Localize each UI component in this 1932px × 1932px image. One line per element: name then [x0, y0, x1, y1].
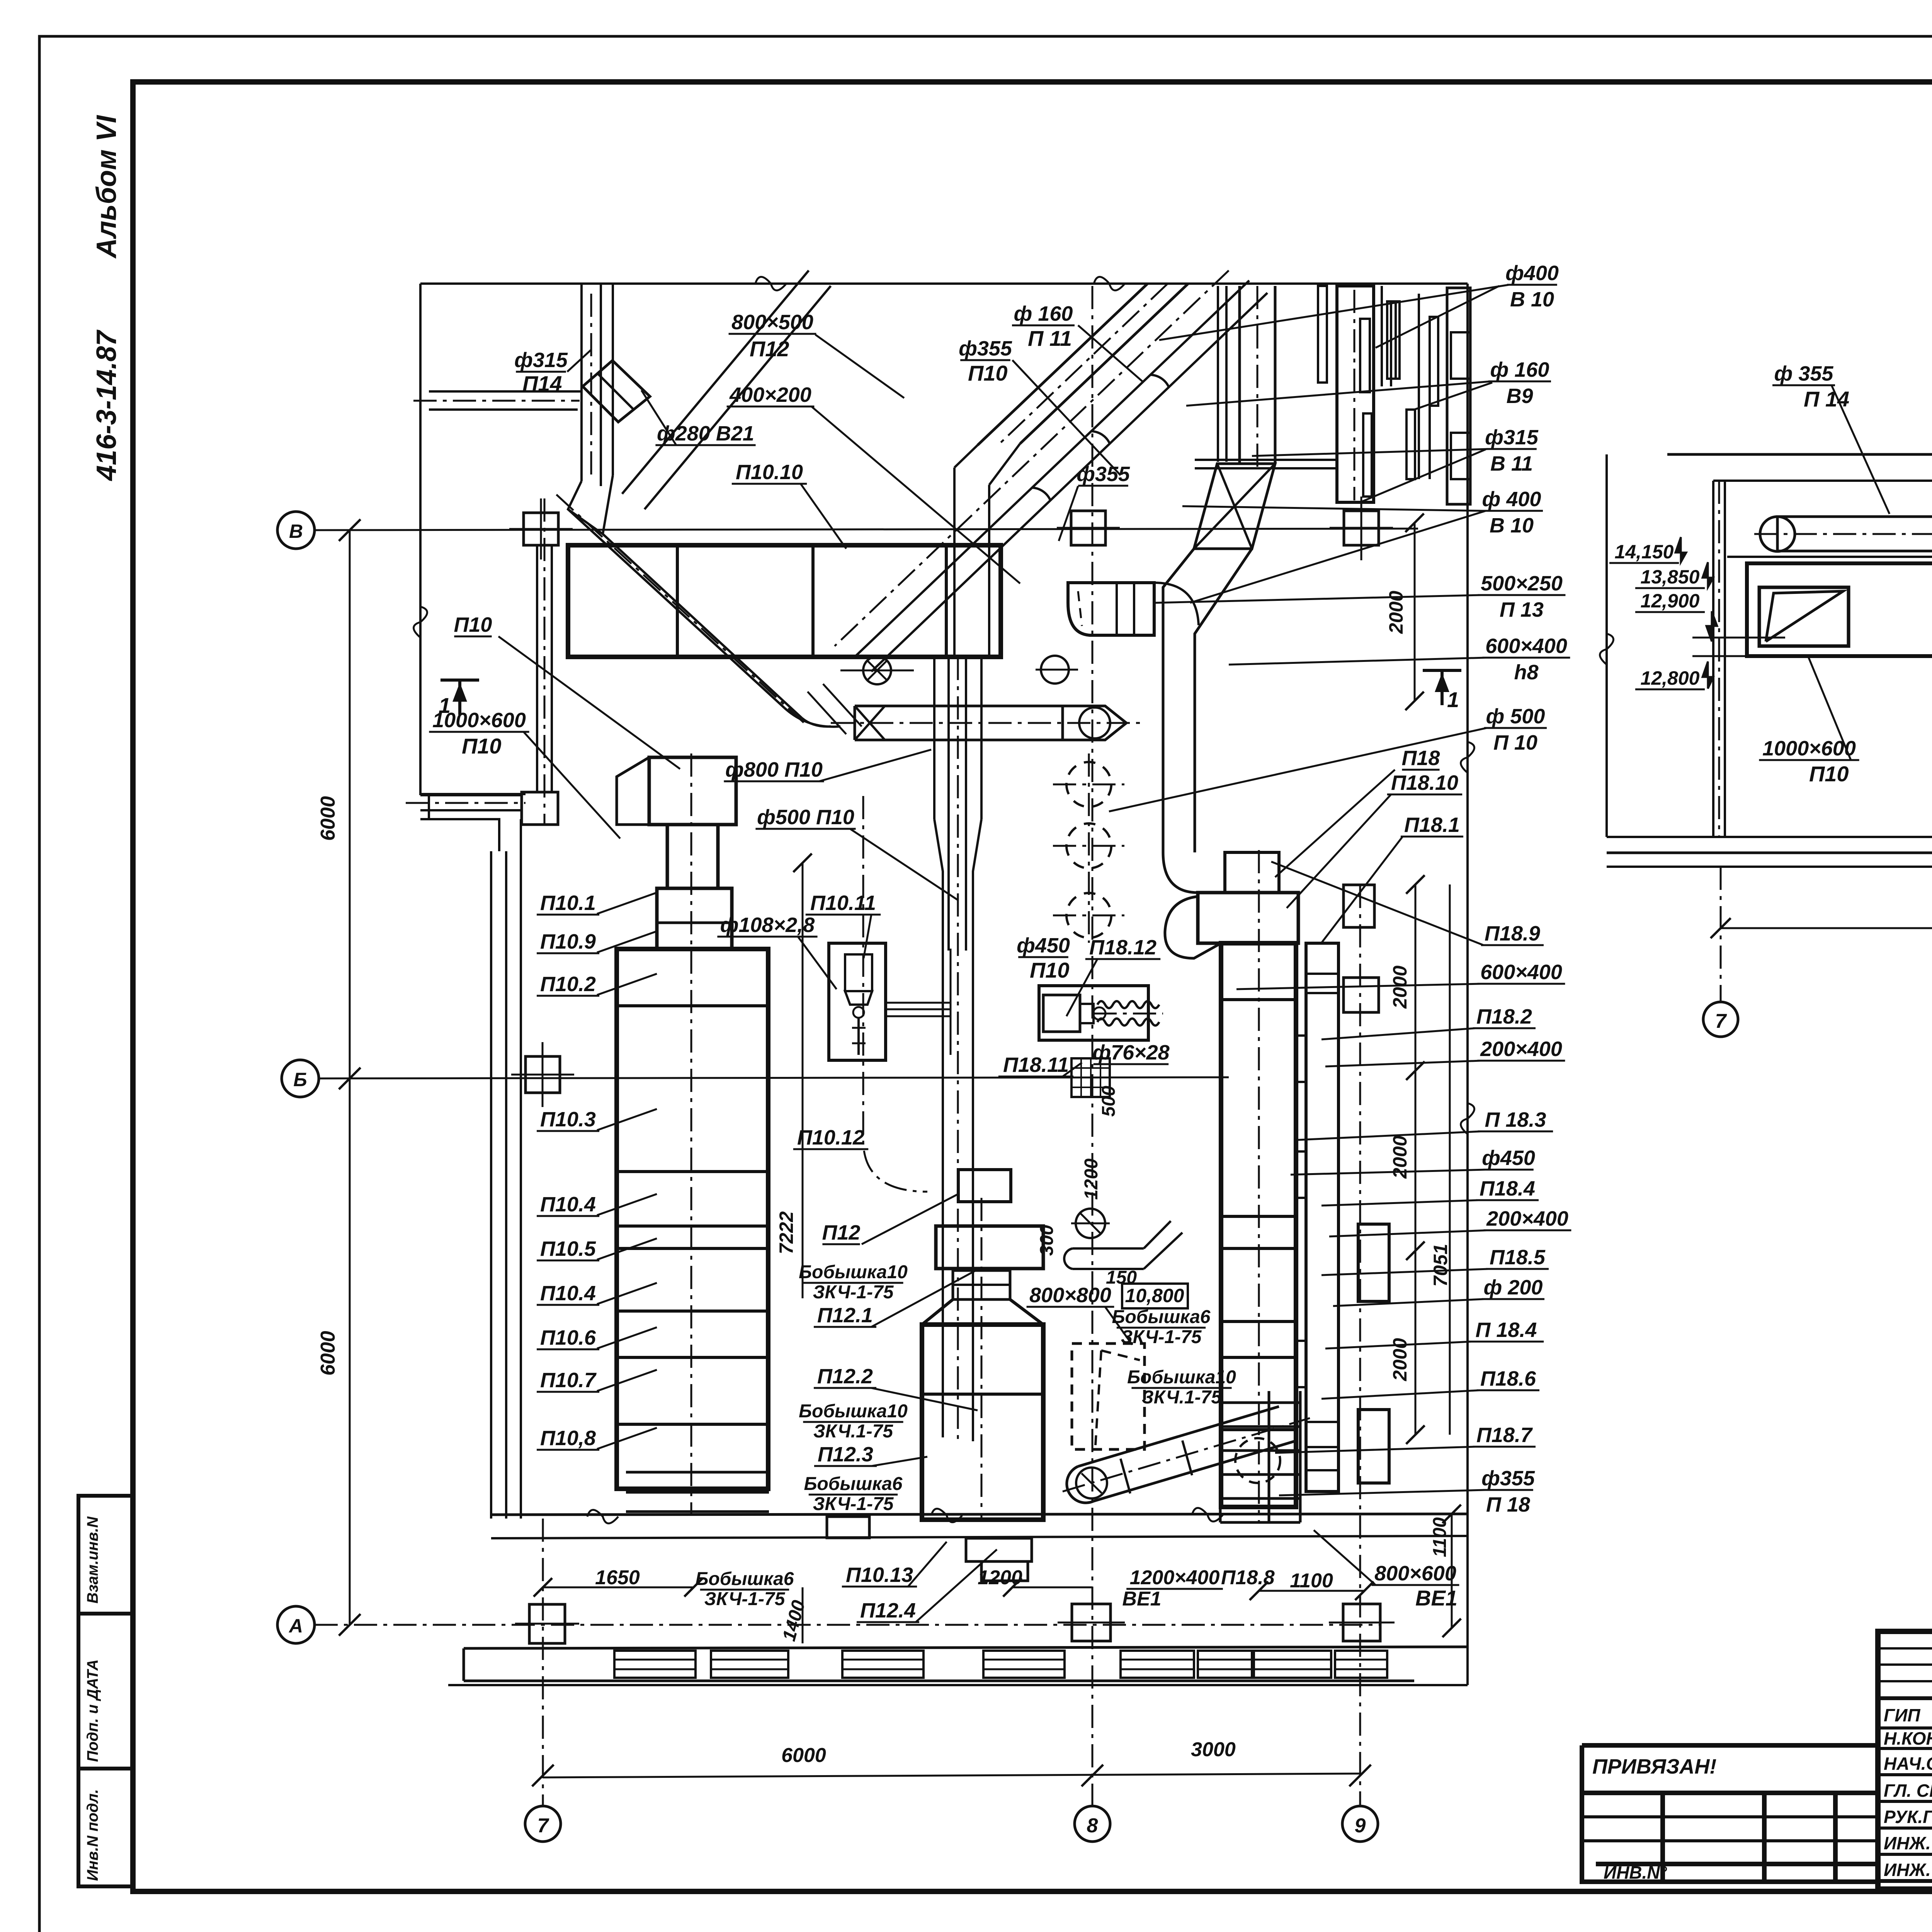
svg-text:300: 300 — [1037, 1225, 1057, 1256]
column at V/8g — [1071, 511, 1105, 545]
svg-text:ф 160: ф 160 — [1014, 302, 1073, 325]
svg-text:П10.6: П10.6 — [540, 1326, 596, 1349]
P10 fan box top — [649, 757, 736, 825]
axis line B — [319, 1077, 1229, 1078]
damper in duct — [1759, 587, 1849, 646]
P10.11 valve assembly — [829, 943, 886, 1060]
svg-text:РУК.ГР.: РУК.ГР. — [1884, 1807, 1932, 1827]
svg-text:ф800 П10: ф800 П10 — [725, 758, 823, 781]
svg-text:П 18: П 18 — [1486, 1493, 1530, 1516]
grid circle 7 — [525, 1806, 561, 1842]
duct 500x250 box P13 — [1068, 583, 1154, 635]
P18 AHU tall unit — [1221, 943, 1296, 1507]
svg-text:6000: 6000 — [317, 796, 339, 841]
svg-text:ф280 В21: ф280 В21 — [657, 422, 754, 445]
P10 riser ducts center — [933, 657, 935, 819]
diagonal bundle P11/P10 f355 — [855, 281, 1249, 657]
svg-text:П18.1: П18.1 — [1404, 813, 1460, 837]
svg-text:П18.5: П18.5 — [1490, 1246, 1546, 1269]
grid 9 riser — [1359, 885, 1361, 1806]
svg-text:h8: h8 — [1514, 661, 1538, 684]
svg-text:В 10: В 10 — [1510, 288, 1554, 311]
axis line V — [315, 529, 1418, 530]
svg-text:П10,8: П10,8 — [540, 1427, 596, 1450]
axis circle V — [277, 512, 315, 549]
taper f800-f500 — [934, 819, 981, 949]
flange box on left duct — [522, 792, 558, 825]
P18.1 fan scroll — [1165, 896, 1221, 958]
svg-text:Взам.инв.N: Взам.инв.N — [84, 1516, 101, 1604]
svg-text:13,850: 13,850 — [1641, 566, 1700, 588]
grid circle 9 — [1342, 1806, 1378, 1842]
svg-text:2000: 2000 — [1389, 966, 1411, 1009]
svg-text:П10: П10 — [968, 361, 1008, 385]
elbow P14 — [583, 361, 650, 422]
svg-text:10,800: 10,800 — [1125, 1285, 1184, 1306]
section floor — [1607, 836, 1932, 838]
P18 side duct 200x400 — [1306, 943, 1338, 1492]
duct 1000x600 section — [1747, 563, 1932, 656]
dim 7222 — [802, 863, 804, 1298]
svg-text:П12: П12 — [750, 337, 789, 361]
svg-text:П18: П18 — [1402, 747, 1440, 770]
svg-text:ВЕ1: ВЕ1 — [1122, 1588, 1161, 1610]
svg-text:Н.КОНТР.: Н.КОНТР. — [1884, 1728, 1932, 1748]
svg-text:500×250: 500×250 — [1481, 572, 1563, 595]
svg-text:1200×400: 1200×400 — [1130, 1566, 1220, 1589]
svg-text:ГИП: ГИП — [1884, 1705, 1920, 1725]
svg-text:П10.11: П10.11 — [810, 891, 876, 915]
svg-text:ф450: ф450 — [1482, 1146, 1535, 1170]
exhaust risers V9 V10 V11 — [1391, 301, 1400, 379]
svg-text:П12.1: П12.1 — [817, 1304, 873, 1327]
svg-text:ЗКЧ.1-75: ЗКЧ.1-75 — [1142, 1387, 1222, 1408]
svg-text:6000: 6000 — [781, 1744, 826, 1767]
hexagon damper f800 — [1063, 706, 1126, 740]
svg-text:1: 1 — [1447, 687, 1459, 712]
floor opening 800x800 dashed — [1072, 1344, 1145, 1449]
svg-text:ф 200: ф 200 — [1484, 1276, 1543, 1299]
svg-text:ф 500: ф 500 — [1486, 705, 1545, 728]
bottom outer wall — [464, 1647, 1468, 1648]
riser pair below V7 column — [536, 545, 538, 792]
svg-text:П18.12: П18.12 — [1089, 936, 1156, 959]
elbow to diagonal — [568, 475, 613, 534]
svg-text:ЗКЧ-1-75: ЗКЧ-1-75 — [1121, 1327, 1202, 1347]
svg-text:Инв.N подл.: Инв.N подл. — [84, 1789, 101, 1881]
column at A/9 — [1343, 1604, 1380, 1641]
svg-text:П18.6: П18.6 — [1480, 1367, 1536, 1390]
svg-text:600×400: 600×400 — [1480, 961, 1562, 984]
svg-text:П18.7: П18.7 — [1476, 1423, 1533, 1447]
section mark 1 right — [1423, 670, 1461, 705]
svg-text:ВЕ1: ВЕ1 — [1415, 1586, 1458, 1610]
long leaders — [1376, 286, 1499, 348]
plan left dim line — [419, 284, 422, 795]
svg-text:800×600: 800×600 — [1374, 1562, 1456, 1585]
svg-text:П18.2: П18.2 — [1476, 1005, 1532, 1028]
axis line A — [315, 1624, 1379, 1626]
svg-text:П10.7: П10.7 — [540, 1369, 597, 1392]
margin stamp table — [78, 1496, 133, 1886]
elbow arcs — [784, 708, 840, 727]
svg-text:П10.4: П10.4 — [540, 1282, 596, 1305]
svg-text:П 11: П 11 — [1028, 326, 1072, 350]
svg-text:П10: П10 — [1809, 762, 1849, 786]
pipe drop w vert line — [950, 949, 952, 1055]
diagonal duct D2 wide 800x500 — [978, 284, 1148, 445]
svg-text:ф315: ф315 — [1485, 426, 1539, 449]
svg-text:П10.10: П10.10 — [736, 461, 803, 484]
section ceiling — [1667, 453, 1932, 456]
svg-text:П12.2: П12.2 — [817, 1365, 873, 1388]
left dim line 6000/6000 — [349, 530, 351, 1625]
P10 unit neck — [657, 888, 732, 949]
P18 bottom intake ladder — [1219, 1391, 1222, 1522]
dim 1400 rot — [802, 1587, 804, 1643]
svg-text:1000×600: 1000×600 — [432, 709, 526, 732]
privyazan table — [1582, 1745, 1878, 1882]
riser continues to P10 unit — [942, 949, 944, 1437]
riser shaft lines top right — [1217, 286, 1219, 462]
plan right boundary — [1466, 284, 1469, 1685]
svg-text:3000: 3000 — [1191, 1738, 1236, 1761]
svg-text:500: 500 — [1099, 1086, 1119, 1117]
vertical duct pair below D2 — [953, 468, 956, 657]
svg-text:1100: 1100 — [1430, 1517, 1450, 1557]
svg-text:400×200: 400×200 — [729, 383, 811, 406]
svg-text:П10.3: П10.3 — [540, 1108, 596, 1131]
svg-text:В9: В9 — [1506, 384, 1533, 408]
svg-text:1650: 1650 — [595, 1566, 640, 1589]
svg-text:ГЛ. СП.: ГЛ. СП. — [1884, 1781, 1932, 1801]
section mark 1 top — [440, 680, 479, 715]
svg-text:ф315: ф315 — [514, 349, 568, 372]
svg-text:Бобышка10: Бобышка10 — [799, 1401, 908, 1422]
P18 connectors — [1296, 1036, 1306, 1082]
svg-text:П10: П10 — [1030, 958, 1070, 982]
svg-text:1200: 1200 — [978, 1566, 1022, 1589]
svg-text:ЗКЧ-1-75: ЗКЧ-1-75 — [813, 1494, 894, 1514]
grid 7 riser — [542, 1519, 544, 1806]
svg-text:Бобышка6: Бобышка6 — [1112, 1307, 1211, 1327]
column at V/9g — [1344, 511, 1379, 545]
svg-text:ф500 П10: ф500 П10 — [757, 806, 854, 829]
svg-text:ф450: ф450 — [1017, 934, 1070, 957]
grid circle 8 — [1075, 1806, 1110, 1842]
svg-text:416-3-14.87: 416-3-14.87 — [91, 330, 122, 481]
svg-text:7051: 7051 — [1430, 1244, 1451, 1287]
P18 fan top assembly — [1225, 852, 1279, 893]
svg-text:ф355: ф355 — [959, 337, 1012, 360]
heater grid P18.11 — [1071, 1058, 1110, 1097]
title block outer — [1878, 1631, 1932, 1889]
svg-text:12,900: 12,900 — [1641, 590, 1700, 612]
column at B/7 — [526, 1056, 560, 1093]
duct f800 horizontal — [855, 705, 1063, 707]
svg-text:1200: 1200 — [1081, 1158, 1102, 1200]
svg-text:П10: П10 — [454, 613, 492, 636]
svg-text:В 10: В 10 — [1490, 514, 1534, 537]
svg-text:7222: 7222 — [776, 1211, 797, 1254]
svg-text:ЗКЧ-1-75: ЗКЧ-1-75 — [704, 1589, 786, 1609]
plan top boundary — [420, 282, 1468, 285]
svg-text:Бобышка6: Бобышка6 — [696, 1569, 794, 1589]
svg-text:7: 7 — [537, 1815, 549, 1837]
column at V/7 — [524, 513, 558, 545]
dim 1100 vert right — [1451, 1514, 1453, 1628]
svg-text:6000: 6000 — [317, 1331, 339, 1376]
svg-text:В 11: В 11 — [1490, 452, 1533, 475]
P12 fan casing — [922, 1325, 1043, 1520]
beam line — [1727, 556, 1932, 558]
section left wall — [1712, 481, 1714, 837]
svg-text:Бобышка10: Бобышка10 — [1127, 1367, 1236, 1388]
svg-text:П 18.4: П 18.4 — [1476, 1318, 1537, 1342]
section left boundary — [1605, 454, 1608, 837]
BE1 diagonal duct bottom — [1078, 1406, 1294, 1501]
svg-text:П10.1: П10.1 — [540, 891, 596, 915]
svg-text:П12.4: П12.4 — [860, 1599, 916, 1622]
svg-text:1100: 1100 — [1290, 1570, 1333, 1592]
duct P18.9 600x400 vertical w elbow — [1238, 286, 1241, 464]
svg-text:9: 9 — [1355, 1815, 1366, 1837]
hatch circle BE1 plan — [1076, 1468, 1107, 1498]
motor and flexible insert P18.12 — [1039, 986, 1148, 1040]
left wall — [490, 851, 492, 1519]
svg-text:Альбом VI: Альбом VI — [91, 115, 122, 259]
P12.4 outlet below wall — [966, 1538, 1032, 1561]
three dashed outlet circles f450 — [1066, 762, 1111, 807]
svg-text:ИНВ.N°: ИНВ.N° — [1604, 1862, 1667, 1883]
grid 8 riser — [1092, 286, 1094, 1806]
dim column 2000x3 + 7051 — [1415, 884, 1417, 1435]
duct f315 P14 horizontal — [429, 390, 583, 393]
duct 1000x600 from left wall — [420, 794, 522, 796]
column at A/8 — [1072, 1604, 1111, 1641]
svg-text:ф 160: ф 160 — [1490, 358, 1549, 381]
svg-text:П12: П12 — [822, 1221, 861, 1244]
bottom wall — [491, 1514, 1468, 1515]
svg-text:П18.11: П18.11 — [1003, 1053, 1069, 1077]
svg-text:12,800: 12,800 — [1641, 667, 1700, 689]
dim 2000 right top — [1414, 523, 1416, 701]
P10 discharge bottom — [617, 1487, 768, 1490]
P12 duct centerline bend — [863, 796, 927, 1192]
floor grating — [614, 1651, 696, 1678]
svg-text:П18.4: П18.4 — [1480, 1177, 1535, 1200]
diagonal duct to fan chamber — [568, 509, 784, 708]
svg-text:Бобышка10: Бобышка10 — [799, 1262, 908, 1282]
chamber P10.10 big box — [568, 545, 1001, 657]
svg-text:ЗКЧ-1-75: ЗКЧ-1-75 — [813, 1282, 894, 1303]
svg-text:П 13: П 13 — [1500, 598, 1544, 621]
svg-text:800×800: 800×800 — [1029, 1284, 1111, 1307]
svg-text:600×400: 600×400 — [1485, 634, 1567, 658]
svg-text:НАЧ.ОТД: НАЧ.ОТД — [1884, 1753, 1932, 1774]
svg-text:ЗКЧ.1-75: ЗКЧ.1-75 — [813, 1421, 893, 1442]
axis circle B — [282, 1060, 319, 1097]
svg-text:П10.12: П10.12 — [797, 1126, 864, 1149]
diagonal duct D1 400x200 — [622, 270, 809, 494]
svg-text:ИНЖ.: ИНЖ. — [1884, 1833, 1931, 1853]
boxed level 10800 — [1122, 1284, 1188, 1308]
svg-text:ф 400: ф 400 — [1482, 488, 1541, 511]
dim 1650 — [543, 1587, 694, 1588]
svg-text:Бобышка6: Бобышка6 — [804, 1474, 903, 1494]
round duct f355 P14 section — [1777, 517, 1932, 551]
svg-text:200×400: 200×400 — [1486, 1207, 1568, 1230]
svg-text:ф355: ф355 — [1077, 463, 1130, 486]
round duct elbow bottom left of P12 — [1076, 1209, 1105, 1238]
svg-text:П10.5: П10.5 — [540, 1237, 596, 1260]
circle with cross f355 stub — [863, 656, 891, 684]
vertical duct P14 at top left — [580, 284, 583, 481]
svg-text:П10.13: П10.13 — [846, 1563, 913, 1587]
svg-text:ф400: ф400 — [1505, 262, 1559, 285]
left wall notch — [420, 794, 526, 851]
svg-text:200×400: 200×400 — [1480, 1037, 1562, 1061]
svg-text:Подп. и ДАТА: Подп. и ДАТА — [84, 1659, 101, 1762]
P18 side boxes — [1344, 978, 1379, 1012]
title block personnel rows — [1878, 1726, 1932, 1730]
elbow from P13 down — [1154, 583, 1199, 625]
svg-text:Б: Б — [293, 1069, 307, 1090]
svg-text:П10.4: П10.4 — [540, 1193, 596, 1216]
svg-text:П 18.3: П 18.3 — [1485, 1108, 1546, 1131]
svg-text:8: 8 — [1087, 1815, 1098, 1837]
P12 unit boxes — [958, 1170, 1011, 1202]
svg-text:ПРИВЯЗАН!: ПРИВЯЗАН! — [1592, 1755, 1716, 1778]
P10 AHU vertical unit — [617, 949, 768, 1489]
svg-text:П14: П14 — [522, 371, 562, 396]
svg-text:П18.9: П18.9 — [1485, 922, 1540, 945]
svg-text:П12.3: П12.3 — [818, 1443, 873, 1466]
arcs on round diagonal duct — [1151, 375, 1169, 387]
svg-text:П10.2: П10.2 — [540, 973, 596, 996]
title block top small rows — [1878, 1647, 1932, 1650]
bottom dim line — [543, 1774, 1360, 1777]
pipes from valve — [886, 1002, 951, 1004]
P10.13 box on wall — [827, 1517, 869, 1538]
circle f355 end — [1041, 656, 1069, 684]
svg-text:П10.9: П10.9 — [540, 930, 596, 953]
svg-text:П 10: П 10 — [1493, 731, 1537, 754]
svg-text:ИНЖ.: ИНЖ. — [1884, 1860, 1931, 1880]
svg-text:П18.8: П18.8 — [1221, 1566, 1275, 1589]
svg-text:П18.10: П18.10 — [1391, 771, 1458, 794]
svg-text:ф108×2,8: ф108×2,8 — [720, 913, 815, 937]
svg-text:800×500: 800×500 — [731, 311, 813, 334]
svg-text:А: А — [288, 1615, 303, 1637]
column at A/7 — [529, 1604, 565, 1643]
svg-text:ф355: ф355 — [1481, 1467, 1535, 1490]
svg-text:7: 7 — [1715, 1010, 1727, 1032]
svg-text:14,150: 14,150 — [1615, 541, 1674, 563]
svg-text:В: В — [289, 520, 303, 542]
svg-text:П10: П10 — [462, 734, 502, 758]
svg-text:ф76×28: ф76×28 — [1092, 1041, 1169, 1064]
axis circle A — [277, 1606, 315, 1643]
svg-text:ф 355: ф 355 — [1774, 362, 1834, 385]
dim 1200 — [1012, 1587, 1092, 1588]
small vent boxes right — [1451, 332, 1470, 379]
dim 1100 bottom — [1259, 1590, 1364, 1592]
section grid circles — [1703, 1002, 1738, 1037]
section dim line — [1721, 927, 1932, 929]
